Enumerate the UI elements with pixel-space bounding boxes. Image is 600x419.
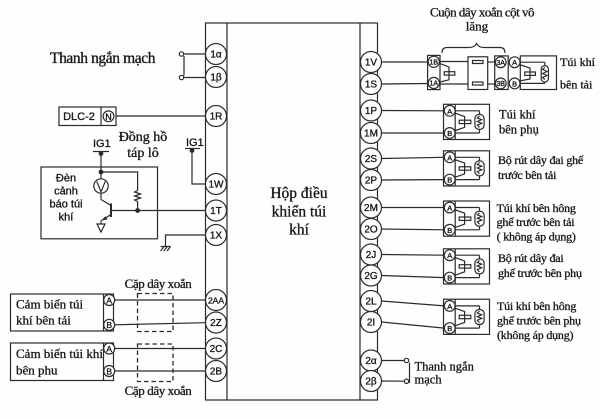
squib igniter element xyxy=(475,310,484,325)
svg-text:trước bên tải: trước bên tải xyxy=(498,168,557,182)
wire A to squib igniter xyxy=(455,254,480,256)
svg-text:2L: 2L xyxy=(365,297,377,308)
svg-text:2M: 2M xyxy=(364,203,378,214)
shorting clip xyxy=(459,315,471,318)
wire B to squib igniter xyxy=(455,229,480,231)
wire pin 1V to spiral connector xyxy=(382,61,428,63)
pin A circle (S2) xyxy=(104,343,115,354)
pin 2I circle xyxy=(361,312,382,333)
wire pin 2S to A xyxy=(382,157,445,158)
shorting clip xyxy=(459,167,471,170)
squib connector box xyxy=(444,151,490,186)
pin 2α circle xyxy=(361,350,382,371)
brace over spiral cable xyxy=(442,44,505,54)
pin 1R circle xyxy=(206,106,227,127)
squib connector box xyxy=(444,249,490,284)
wire pin 2M to A xyxy=(382,207,445,209)
wire 1B to spiral body xyxy=(440,61,468,63)
squib box driver airbag xyxy=(520,56,556,90)
svg-text:Cảm biến túi khí: Cảm biến túi khí xyxy=(16,346,103,361)
wire base node to pin 1T xyxy=(111,210,206,212)
wire A to squib igniter xyxy=(455,207,480,209)
wire 1A to spiral body xyxy=(440,83,468,85)
svg-text:1A: 1A xyxy=(430,81,439,88)
shorting clip (spiral connector) xyxy=(444,72,455,75)
wire pin 2L to A xyxy=(382,301,445,306)
svg-text:A: A xyxy=(106,295,112,305)
svg-text:1T: 1T xyxy=(210,206,222,217)
svg-text:IG1: IG1 xyxy=(186,137,204,149)
terminal circle at 2-beta xyxy=(404,379,408,383)
wire B to squib igniter xyxy=(455,327,480,329)
pin 1T circle xyxy=(206,200,227,221)
pin N circle xyxy=(103,111,114,122)
svg-text:1W: 1W xyxy=(209,180,225,191)
svg-text:Cuộn dây xoắn cột vô: Cuộn dây xoắn cột vô xyxy=(430,5,534,20)
svg-text:( không áp dụng): ( không áp dụng) xyxy=(497,230,576,244)
svg-text:A: A xyxy=(512,58,517,67)
svg-text:Thanh ngắn: Thanh ngắn xyxy=(415,360,475,374)
wire junction to resistor top xyxy=(101,172,138,191)
svg-text:1R: 1R xyxy=(210,112,223,123)
wire pin 2O to B xyxy=(382,228,445,231)
twisted-pair dashed box (top) xyxy=(138,294,174,332)
svg-text:Túi khí: Túi khí xyxy=(560,55,596,69)
svg-text:Túi khí bên hông: Túi khí bên hông xyxy=(497,201,576,215)
svg-text:2B: 2B xyxy=(210,367,223,378)
pin 2L circle xyxy=(361,291,382,312)
connector block 3A/3B xyxy=(495,56,509,90)
resistor R1 xyxy=(135,191,141,202)
svg-text:khí: khí xyxy=(289,222,310,239)
pin 3A circle xyxy=(495,57,506,68)
pin 1V circle xyxy=(361,52,382,73)
svg-text:B: B xyxy=(512,79,517,88)
svg-text:1B: 1B xyxy=(430,59,439,66)
svg-text:khí bên tải: khí bên tải xyxy=(16,313,71,328)
power symbol IG1 (1W) xyxy=(185,148,200,150)
spiral cable connector block xyxy=(428,55,440,89)
svg-text:1β: 1β xyxy=(210,73,222,84)
squib igniter (driver airbag) xyxy=(520,61,545,63)
terminal circle at 1-beta xyxy=(179,75,183,79)
svg-text:B: B xyxy=(106,366,112,376)
svg-text:Hộp điều: Hộp điều xyxy=(270,185,328,202)
svg-text:Thanh ngắn mạch: Thanh ngắn mạch xyxy=(50,50,156,67)
pin A circle xyxy=(444,301,455,312)
sensor box S1 "Cam bien tui khi ben tai" xyxy=(11,294,115,331)
wire pin 2beta to terminal xyxy=(382,380,405,382)
pin B circle (S1) xyxy=(104,319,115,330)
svg-text:1V: 1V xyxy=(365,58,378,69)
svg-text:1S: 1S xyxy=(365,80,378,91)
svg-text:2C: 2C xyxy=(210,344,223,355)
wire S2-B to pin 2B xyxy=(115,370,206,372)
svg-text:2S: 2S xyxy=(365,154,378,165)
svg-text:A: A xyxy=(447,153,452,162)
pin 1P circle xyxy=(361,100,382,121)
svg-text:A: A xyxy=(447,107,452,116)
squib U2 passenger airbag xyxy=(382,104,490,139)
wire pin 1X to ground xyxy=(166,235,206,247)
node junction resistor/base xyxy=(136,209,140,213)
svg-text:B: B xyxy=(447,176,452,185)
terminal circle at 1-alpha xyxy=(179,52,183,56)
svg-text:2P: 2P xyxy=(365,176,378,187)
terminal circle at 2-alpha xyxy=(404,358,408,362)
svg-text:Túi khí: Túi khí xyxy=(499,108,536,122)
svg-text:2β: 2β xyxy=(365,377,377,388)
svg-text:2O: 2O xyxy=(364,225,378,236)
wire pin 2J to A xyxy=(382,254,445,257)
svg-text:3A: 3A xyxy=(496,60,505,67)
pin 1M circle xyxy=(361,123,382,144)
pin A circle xyxy=(444,202,455,213)
squib U6 passenger side airbag (not applied) xyxy=(382,299,490,334)
spiral cable body xyxy=(468,57,488,90)
wire S1-B to pin 2Z xyxy=(115,323,206,325)
pin A circle (S1) xyxy=(104,295,115,306)
pin 2B circle xyxy=(206,361,227,382)
squib igniter element xyxy=(475,211,484,226)
wire pin 2P to B xyxy=(382,179,445,181)
svg-text:B: B xyxy=(447,226,452,235)
warning lamp DS1 xyxy=(100,172,102,179)
pin A circle xyxy=(444,152,455,163)
svg-text:B: B xyxy=(447,274,452,283)
twisted-pair dashed box (bottom) xyxy=(138,344,174,382)
wire terminal to pin 1a xyxy=(184,53,206,55)
pin A circle xyxy=(444,105,455,116)
pin B circle xyxy=(444,174,455,185)
wire IG1 to pin 1W xyxy=(192,151,206,185)
pin 1B circle xyxy=(428,56,439,67)
svg-text:cảnh: cảnh xyxy=(54,186,78,198)
pin 2M circle xyxy=(361,197,382,218)
svg-text:Cặp dây xoắn: Cặp dây xoắn xyxy=(125,276,193,291)
wire pin 1M to B xyxy=(382,132,445,134)
pin B circle (S2) xyxy=(104,366,115,377)
ECU left connector strip line xyxy=(226,23,228,400)
svg-text:A: A xyxy=(106,344,112,354)
sensor box S2 "Cam bien tui khi ben phu" xyxy=(11,343,115,381)
shorting-bar link xyxy=(183,56,185,76)
svg-text:Bộ rút dây đai: Bộ rút dây đai xyxy=(498,251,564,265)
pin 2Z circle xyxy=(206,312,227,333)
svg-text:A: A xyxy=(447,302,452,311)
svg-text:(không áp dụng): (không áp dụng) xyxy=(497,328,574,342)
wire B to squib igniter xyxy=(455,179,480,181)
svg-text:Cảm biến túi: Cảm biến túi xyxy=(16,297,84,312)
wire A to squib igniter xyxy=(455,156,480,158)
wire B to squib igniter xyxy=(455,132,480,134)
svg-text:B: B xyxy=(447,324,452,333)
label "Den canh bao tui khi" xyxy=(49,173,82,224)
wire pin 2I to B xyxy=(382,322,445,328)
ground arrow (emitter) xyxy=(97,224,105,232)
pin 2β circle xyxy=(361,371,382,392)
svg-text:B: B xyxy=(447,129,452,138)
pin 1A circle xyxy=(428,77,439,88)
svg-text:Túi khí bên hông: Túi khí bên hông xyxy=(497,299,576,313)
svg-text:bên tải: bên tải xyxy=(560,78,593,92)
wire pin 1P to A xyxy=(382,110,445,112)
squib connector box xyxy=(444,104,490,139)
wire A to squib igniter xyxy=(455,305,480,307)
svg-text:bên phụ: bên phụ xyxy=(499,123,540,137)
pin A circle (driver airbag) xyxy=(509,57,520,68)
pin 2G circle xyxy=(361,265,382,286)
instrument cluster box xyxy=(41,167,158,239)
svg-text:báo túi: báo túi xyxy=(49,199,82,211)
svg-text:1P: 1P xyxy=(365,106,378,117)
pin 3B circle xyxy=(495,78,506,89)
svg-text:2Z: 2Z xyxy=(210,318,222,329)
ECU right connector strip line xyxy=(359,23,361,400)
svg-text:Đèn: Đèn xyxy=(56,173,76,185)
squib igniter element xyxy=(475,259,484,274)
pin 2P circle xyxy=(361,170,382,191)
svg-text:1M: 1M xyxy=(364,129,378,140)
pin 2J circle xyxy=(361,244,382,265)
pin A circle xyxy=(444,250,455,261)
svg-text:DLC-2: DLC-2 xyxy=(63,111,95,123)
svg-text:mạch: mạch xyxy=(415,373,443,387)
pin 1X circle xyxy=(206,225,227,246)
connector DLC-2 box xyxy=(59,107,116,126)
wire pin 2alpha to terminal xyxy=(382,360,405,362)
shorting clip xyxy=(459,265,471,268)
pin 2AA circle xyxy=(206,290,227,311)
wire pin 2G to B xyxy=(382,276,445,278)
wire terminal to pin 1b xyxy=(184,77,206,79)
svg-text:ghế trước bên phụ: ghế trước bên phụ xyxy=(498,266,582,280)
svg-text:bên phu: bên phu xyxy=(16,363,58,378)
wire S2-A to pin 2C xyxy=(115,348,206,350)
svg-text:khiển túi: khiển túi xyxy=(272,204,327,221)
wire DLC-2 pin N to pin 1R xyxy=(116,115,206,117)
squib connector box xyxy=(444,299,490,334)
wire IG1 down into cluster xyxy=(100,154,102,173)
svg-text:khí: khí xyxy=(59,212,74,224)
pin 2O circle xyxy=(361,219,382,240)
svg-text:ghế trước bên tải: ghế trước bên tải xyxy=(497,215,576,229)
svg-text:N: N xyxy=(105,112,112,122)
chassis ground xyxy=(161,246,171,248)
pin 2S circle xyxy=(361,148,382,169)
svg-text:2I: 2I xyxy=(367,318,375,329)
pin 1b circle xyxy=(206,67,227,88)
svg-text:3B: 3B xyxy=(496,81,505,88)
squib igniter element xyxy=(475,161,484,176)
wire A to squib igniter xyxy=(455,110,480,112)
pin B circle xyxy=(444,128,455,139)
svg-text:táp lô: táp lô xyxy=(127,146,159,161)
transistor Q1 xyxy=(110,204,112,218)
squib U3 driver belt pretensioner xyxy=(382,151,490,186)
svg-text:1α: 1α xyxy=(210,50,222,61)
squib U4 driver side airbag (not applied) xyxy=(382,201,490,236)
svg-text:A: A xyxy=(447,204,452,213)
svg-text:Cặp dây xoắn: Cặp dây xoắn xyxy=(125,383,193,398)
node junction above lamp xyxy=(99,170,103,174)
svg-text:B: B xyxy=(106,320,112,330)
shorting-bar link (bottom right) xyxy=(409,363,411,383)
svg-text:2AA: 2AA xyxy=(208,296,224,306)
ECU box U1 "Hop dieu khien tui khi" xyxy=(206,23,378,400)
wire S1-A to pin 2AA xyxy=(115,299,206,301)
svg-text:2J: 2J xyxy=(366,250,377,261)
svg-text:IG1: IG1 xyxy=(93,138,111,150)
svg-text:lăng: lăng xyxy=(466,19,489,34)
wire pin 1S to spiral connector xyxy=(382,83,428,86)
svg-text:Đồng hồ: Đồng hồ xyxy=(119,130,168,145)
pin B circle xyxy=(444,272,455,283)
svg-text:ghế trước bên phụ: ghế trước bên phụ xyxy=(497,314,581,328)
wire spiral body to 3A xyxy=(488,61,496,63)
pin B circle xyxy=(444,224,455,235)
pin 1a circle xyxy=(206,44,227,65)
pin 2C circle xyxy=(206,338,227,359)
power symbol IG1 (cluster) xyxy=(93,151,109,153)
svg-text:1X: 1X xyxy=(210,231,223,242)
wire spiral body to 3B xyxy=(488,83,496,85)
svg-text:2G: 2G xyxy=(364,271,378,282)
pin B circle (driver airbag) xyxy=(509,78,520,89)
wire B to squib igniter xyxy=(455,277,480,279)
svg-text:A: A xyxy=(447,251,452,260)
pin B circle xyxy=(444,323,455,334)
shorting clip (driver airbag) xyxy=(525,72,536,75)
squib igniter element xyxy=(475,114,484,129)
svg-text:Bộ rút dây đai ghế: Bộ rút dây đai ghế xyxy=(498,153,584,167)
squib connector box xyxy=(444,201,490,236)
shorting clip xyxy=(459,217,471,220)
shorting clip xyxy=(459,120,471,123)
squib U5 passenger belt pretensioner xyxy=(382,249,490,284)
svg-text:2α: 2α xyxy=(365,356,377,367)
pin 1W circle xyxy=(206,174,227,195)
pin 1S circle xyxy=(361,74,382,95)
